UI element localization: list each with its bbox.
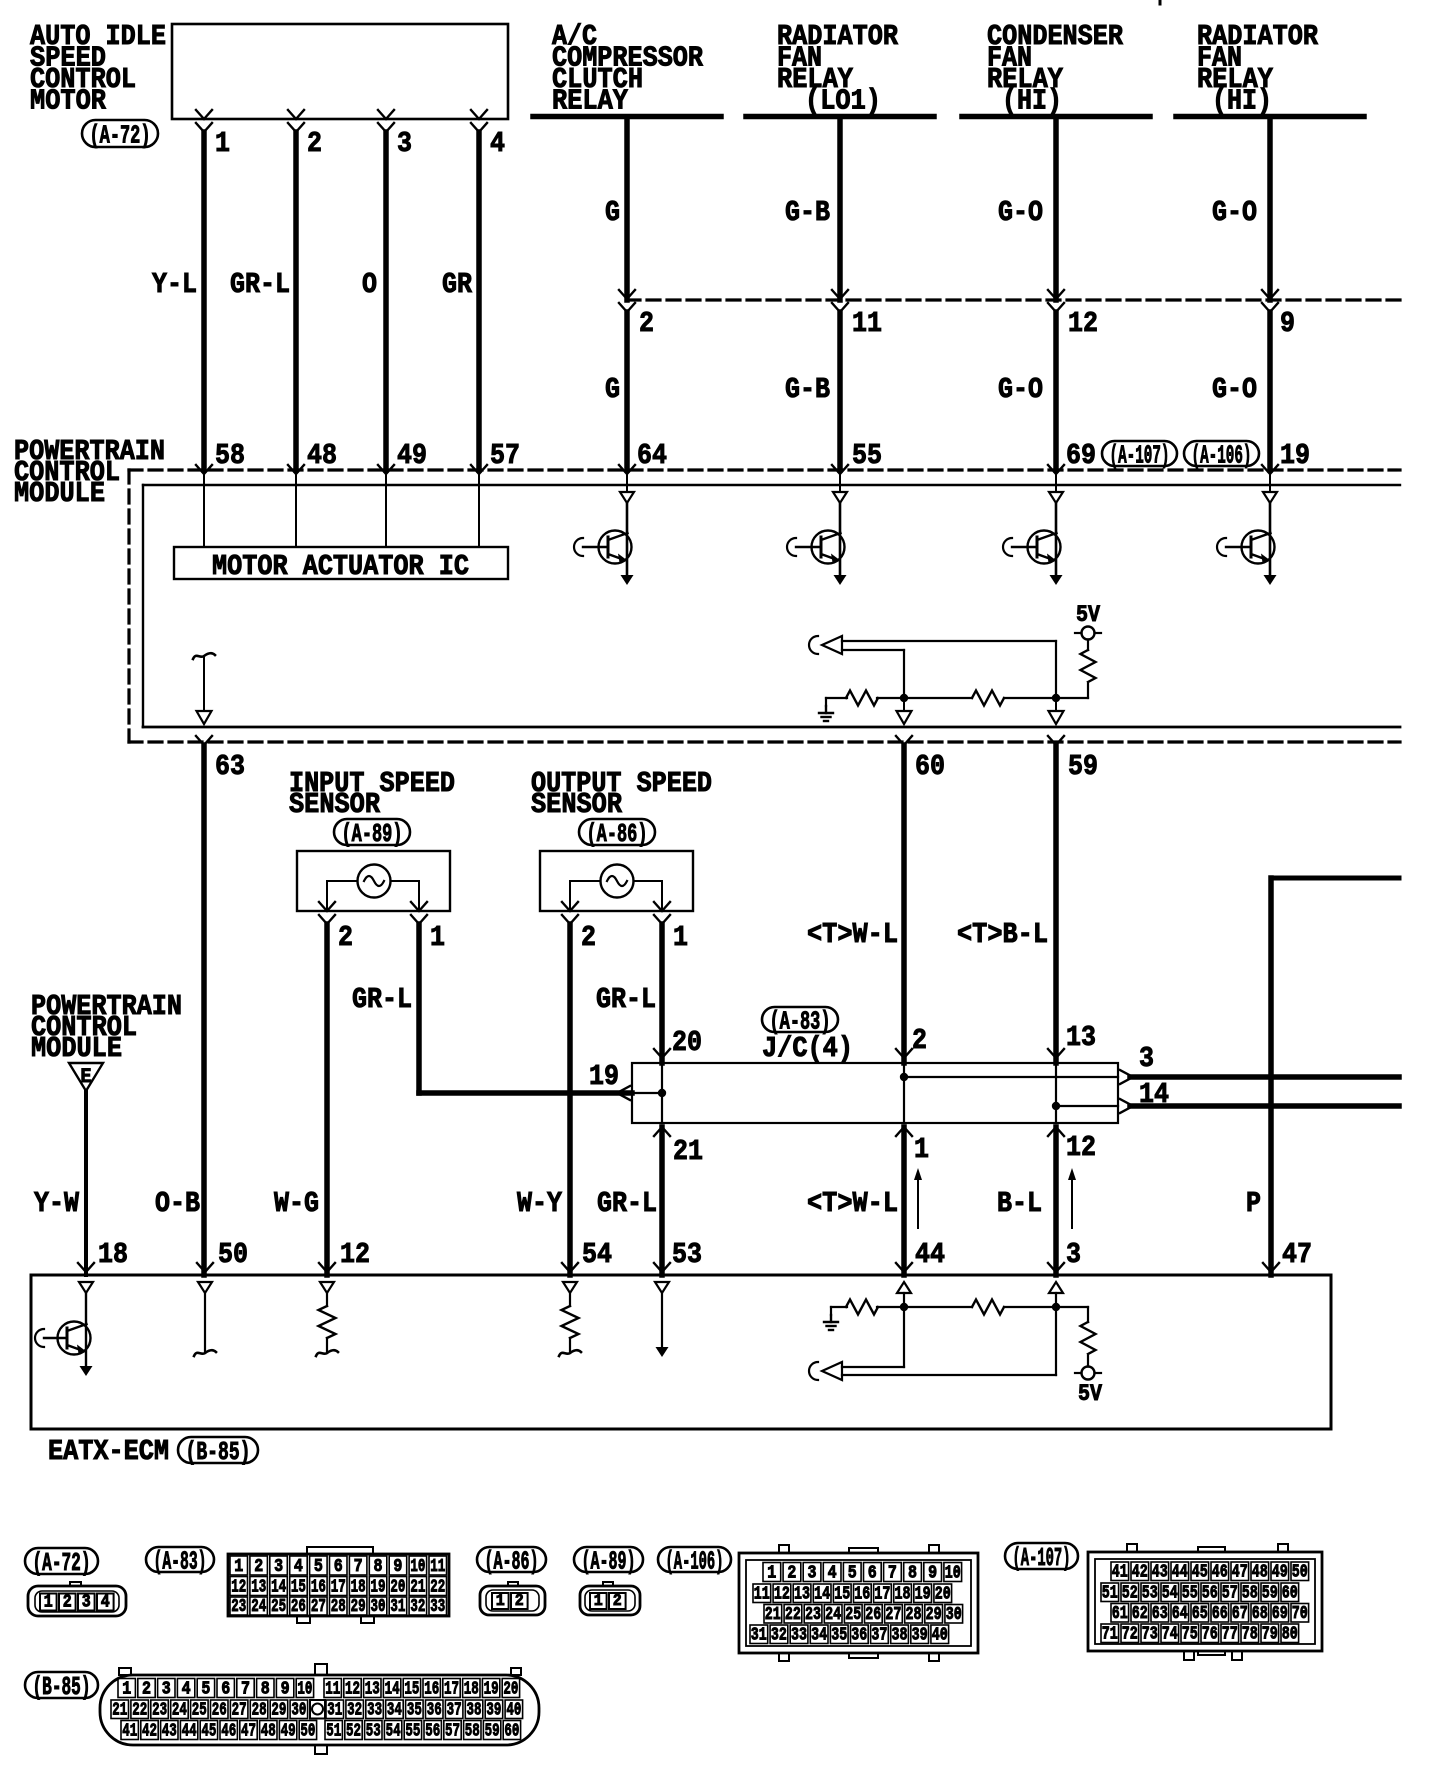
connector ref A-86 bubble	[579, 819, 655, 849]
label OUTPUT SPEED SENSOR	[531, 767, 712, 821]
EATX internal resistor R4 at pin 12	[316, 1282, 338, 1356]
svg-text:41: 41	[122, 1722, 137, 1742]
EATX internal stub pin 50 with curl	[194, 1282, 216, 1356]
connector arrow PCM pin 55	[832, 465, 848, 474]
J/C pin 3 branch wire	[904, 1070, 1133, 1084]
svg-text:(B-85): (B-85)	[186, 1437, 251, 1467]
J/C pin 21 chevron	[654, 1127, 670, 1136]
PCM pin 59 exit chevron	[1048, 736, 1064, 745]
J/C pin 12 chevron	[1048, 1127, 1064, 1136]
wire W-G A-89 pin 2 to EATX pin 12	[324, 924, 330, 1275]
svg-text:69: 69	[1066, 439, 1096, 472]
svg-text:55: 55	[852, 439, 882, 472]
svg-text:39: 39	[912, 1626, 928, 1646]
svg-text:16: 16	[854, 1585, 870, 1605]
wire internal vertical 904 EATX	[903, 1307, 905, 1367]
connector B-85 pin cells 21-30	[111, 1700, 308, 1721]
svg-text:4: 4	[182, 1680, 191, 1700]
svg-text:G-O: G-O	[998, 373, 1043, 406]
connector B-85 pin cells 11-20	[324, 1679, 520, 1700]
svg-text:64: 64	[637, 439, 667, 472]
connector pinout ref A-86 bubble (bottom)	[477, 1547, 546, 1577]
svg-text:44: 44	[182, 1722, 197, 1742]
svg-text:(A-72): (A-72)	[90, 121, 151, 151]
junction node J/C at 904,1077	[900, 1073, 908, 1081]
EATX pin 44 chevron	[896, 1263, 912, 1272]
svg-text:(A-106): (A-106)	[666, 1547, 724, 1577]
wire GR-L inside J/C vertical	[661, 1063, 663, 1123]
svg-text:48: 48	[261, 1722, 276, 1742]
EATX internal transistor Q5	[79, 1282, 93, 1367]
connector arrow PCM pin 58	[196, 465, 212, 474]
wire B-L J/C pin 12 to EATX pin 3	[1053, 1127, 1059, 1275]
wire G junction to PCM pin 64	[624, 312, 630, 470]
wire G-O relay to junction pin 9	[1267, 119, 1273, 300]
svg-text:GR-L: GR-L	[596, 983, 656, 1016]
svg-text:27: 27	[311, 1597, 326, 1617]
connector B-85 pin cells 31-40	[326, 1700, 523, 1721]
svg-text:1: 1	[914, 1133, 929, 1166]
J/C pin 19 exit arrow	[617, 1086, 662, 1100]
connector chevrons A-89 pin 2	[319, 902, 335, 924]
junction chevrons pin 2	[619, 290, 635, 312]
svg-text:G-O: G-O	[1212, 196, 1257, 229]
svg-text:W-Y: W-Y	[517, 1187, 563, 1220]
svg-text:47: 47	[1232, 1563, 1248, 1583]
wire PCM internal to motor actuator IC at x=204	[203, 474, 205, 547]
svg-text:25: 25	[845, 1605, 861, 1625]
svg-text:9: 9	[393, 1557, 402, 1577]
svg-text:33: 33	[367, 1701, 382, 1721]
svg-text:8: 8	[261, 1680, 270, 1700]
EATX internal arrow pin 3	[1049, 1282, 1063, 1307]
svg-text:50: 50	[218, 1238, 248, 1271]
svg-text:15: 15	[404, 1680, 419, 1700]
svg-text:60: 60	[915, 750, 945, 783]
wire <T>B-L PCM pin 59 to J/C pin 13	[1053, 745, 1059, 1063]
svg-text:56: 56	[425, 1722, 440, 1742]
svg-text:37: 37	[447, 1701, 462, 1721]
EATX resistor R6	[831, 1300, 904, 1315]
svg-text:E: E	[81, 1066, 92, 1089]
svg-text:1: 1	[767, 1564, 776, 1584]
transistor Q3 (PCM driver)	[1003, 474, 1063, 585]
svg-text:MOTOR: MOTOR	[30, 85, 107, 118]
svg-text:1: 1	[234, 1557, 243, 1577]
svg-text:2: 2	[142, 1680, 151, 1700]
svg-text:(A-83): (A-83)	[154, 1547, 207, 1577]
svg-text:12: 12	[1068, 307, 1098, 340]
svg-text:(A-107): (A-107)	[1013, 1543, 1071, 1573]
label AUTO IDLE SPEED CONTROL MOTOR	[30, 20, 166, 118]
connector ref A-107 bubble	[1102, 441, 1177, 471]
svg-text:68: 68	[1252, 1604, 1268, 1624]
svg-text:79: 79	[1262, 1625, 1278, 1645]
wire P from right to EATX pin 47	[1271, 878, 1399, 1275]
wire Y-W PCM ground to EATX pin 18	[84, 1091, 88, 1275]
svg-text:18: 18	[98, 1238, 128, 1271]
svg-text:73: 73	[1142, 1625, 1158, 1645]
svg-text:2: 2	[787, 1564, 796, 1584]
PCM resistor R2	[826, 691, 904, 706]
svg-text:29: 29	[926, 1605, 942, 1625]
svg-text:GR-L: GR-L	[230, 268, 290, 301]
svg-text:57: 57	[490, 439, 520, 472]
svg-text:19: 19	[915, 1585, 931, 1605]
signal direction arrow at pin 44	[914, 1168, 922, 1228]
motor actuator IC box U1	[174, 547, 508, 579]
svg-text:3: 3	[274, 1557, 283, 1577]
svg-text:15: 15	[291, 1578, 306, 1598]
svg-text:52: 52	[1122, 1584, 1138, 1604]
svg-text:72: 72	[1122, 1625, 1138, 1645]
transistor Q2 (PCM driver)	[787, 474, 847, 585]
svg-text:1: 1	[496, 1592, 505, 1611]
wire <T>W-L PCM pin 60 to J/C pin 2	[901, 745, 907, 1063]
svg-text:O-B: O-B	[155, 1187, 200, 1220]
scan tick top	[1159, 0, 1162, 4]
connector pinout A-86 body	[480, 1582, 545, 1615]
svg-text:45: 45	[1192, 1563, 1208, 1583]
svg-text:MODULE: MODULE	[31, 1032, 122, 1065]
connector chevrons motor pin 1	[196, 110, 212, 132]
wire G-O relay to junction pin 12	[1053, 119, 1059, 300]
svg-text:EATX-ECM: EATX-ECM	[48, 1435, 169, 1468]
EATX pin 3 chevron	[1048, 1263, 1064, 1272]
connector arrow PCM pin 57	[471, 465, 487, 474]
svg-text:P: P	[1246, 1187, 1261, 1220]
svg-text:(HI): (HI)	[1002, 85, 1062, 118]
wire G relay to junction pin 2	[624, 119, 630, 300]
svg-text:4: 4	[101, 1593, 110, 1613]
svg-text:1: 1	[594, 1592, 603, 1611]
junction chevrons pin 12	[1048, 290, 1064, 312]
connector arrow PCM pin 19	[1262, 465, 1278, 474]
svg-text:(A-106): (A-106)	[1192, 441, 1252, 471]
label INPUT SPEED SENSOR	[289, 767, 455, 821]
svg-text:29: 29	[271, 1701, 286, 1721]
svg-text:2: 2	[639, 307, 654, 340]
svg-text:12: 12	[231, 1578, 246, 1598]
svg-text:13: 13	[365, 1680, 380, 1700]
svg-text:21: 21	[673, 1135, 703, 1168]
svg-text:25: 25	[271, 1597, 286, 1617]
connector pinout ref A-89 bubble (bottom)	[574, 1547, 643, 1577]
svg-text:62: 62	[1132, 1604, 1148, 1624]
svg-text:58: 58	[215, 439, 245, 472]
svg-text:(A-86): (A-86)	[587, 819, 648, 849]
svg-text:63: 63	[1152, 1604, 1168, 1624]
sensor leads A-89	[327, 881, 419, 911]
svg-text:13: 13	[251, 1578, 266, 1598]
svg-text:23: 23	[231, 1597, 246, 1617]
svg-text:12: 12	[340, 1238, 370, 1271]
EATX pin 47 chevron	[1263, 1263, 1279, 1272]
svg-text:48: 48	[307, 439, 337, 472]
svg-text:42: 42	[1132, 1563, 1148, 1583]
svg-text:78: 78	[1242, 1625, 1258, 1645]
wire internal vertical at 904	[903, 650, 905, 698]
svg-text:11: 11	[430, 1557, 445, 1577]
connector A-107 pin cells 41-50	[1111, 1562, 1309, 1583]
svg-text:J/C(4): J/C(4)	[762, 1032, 853, 1065]
connector ref A-83 bubble	[762, 1007, 838, 1037]
connector A-107 pin cells 61-70	[1111, 1604, 1309, 1625]
svg-text:14: 14	[271, 1578, 286, 1598]
svg-text:33: 33	[430, 1597, 445, 1617]
connector chevrons A-86 pin 2	[562, 902, 578, 924]
EATX resistor R7	[904, 1300, 1056, 1315]
svg-text:1: 1	[122, 1680, 131, 1700]
svg-text:5V: 5V	[1076, 602, 1100, 628]
wire B-L inside J/C vertical	[1055, 1063, 1057, 1123]
connector A-83 pin cells 12-22	[230, 1577, 447, 1598]
svg-text:3: 3	[1139, 1042, 1154, 1075]
svg-text:47: 47	[1282, 1238, 1312, 1271]
svg-text:20: 20	[390, 1578, 405, 1598]
svg-text:59: 59	[1262, 1584, 1278, 1604]
svg-text:48: 48	[1252, 1563, 1268, 1583]
connector arrow PCM pin 69	[1048, 465, 1064, 474]
svg-text:MOTOR ACTUATOR IC: MOTOR ACTUATOR IC	[212, 550, 469, 583]
wire G-B relay to junction pin 11	[837, 119, 843, 300]
connector pinout ref A-107 bubble (bottom)	[1005, 1543, 1078, 1573]
svg-text:31: 31	[751, 1626, 767, 1646]
svg-text:50: 50	[300, 1722, 315, 1742]
connector A-106 pin cells 31-40	[750, 1625, 949, 1646]
junction node at 904,698	[900, 694, 908, 702]
connector pinout B-85 body	[100, 1664, 539, 1754]
svg-text:13: 13	[1066, 1021, 1096, 1054]
connector arrow PCM pin 48	[288, 465, 304, 474]
svg-text:17: 17	[874, 1585, 890, 1605]
svg-text:10: 10	[297, 1680, 312, 1700]
PCM internal wire to pin 63 with curl	[193, 653, 215, 710]
svg-text:17: 17	[331, 1578, 346, 1598]
svg-text:38: 38	[467, 1701, 482, 1721]
connector A-106 pin cells 1-10	[763, 1563, 962, 1584]
svg-text:22: 22	[132, 1701, 147, 1721]
wire G-O junction to PCM pin 19	[1267, 312, 1273, 470]
wire GR motor pin 4 to PCM pin 57	[476, 132, 482, 470]
svg-text:4: 4	[294, 1557, 303, 1577]
svg-text:18: 18	[351, 1578, 366, 1598]
wire GR-L J/C pin 21 to EATX pin 53	[659, 1127, 665, 1275]
svg-text:7: 7	[241, 1680, 250, 1700]
svg-text:32: 32	[347, 1701, 362, 1721]
svg-text:12: 12	[774, 1585, 790, 1605]
svg-text:6: 6	[334, 1557, 343, 1577]
svg-text:19: 19	[1280, 439, 1310, 472]
svg-text:2: 2	[912, 1024, 927, 1057]
svg-text:25: 25	[192, 1701, 207, 1721]
svg-text:66: 66	[1212, 1604, 1228, 1624]
dashed junction line (harness boundary)	[627, 298, 1400, 301]
svg-text:53: 53	[366, 1722, 381, 1742]
connector pinout A-72 body	[28, 1582, 126, 1616]
svg-text:40: 40	[506, 1701, 521, 1721]
EATX internal bus arrow with curl	[809, 1362, 1056, 1380]
svg-text:32: 32	[771, 1626, 787, 1646]
input speed sensor generator symbol	[358, 865, 391, 898]
svg-text:12: 12	[1066, 1131, 1096, 1164]
PCM pull-up resistor R1	[1056, 640, 1096, 699]
svg-text:23: 23	[805, 1605, 821, 1625]
svg-text:G: G	[605, 196, 620, 229]
PCM internal ground	[819, 698, 833, 721]
connector A-83 pin cells 23-33	[230, 1597, 447, 1617]
svg-text:22: 22	[430, 1578, 445, 1598]
junction node at 904,1307	[900, 1303, 908, 1311]
EATX-ECM box outline	[31, 1275, 1331, 1429]
svg-text:16: 16	[424, 1680, 439, 1700]
svg-text:Y-L: Y-L	[152, 268, 197, 301]
svg-text:76: 76	[1202, 1625, 1218, 1645]
svg-text:58: 58	[465, 1722, 480, 1742]
wire W-Y A-86 pin 2 to EATX pin 54	[567, 924, 573, 1275]
J/C pin 13 chevron	[1048, 1049, 1064, 1058]
svg-text:69: 69	[1272, 1604, 1288, 1624]
svg-text:26: 26	[865, 1605, 881, 1625]
svg-text:41: 41	[1112, 1563, 1128, 1583]
connector pinout ref A-72 bubble (bottom)	[25, 1548, 98, 1578]
wire O-B PCM pin 63 to EATX pin 50	[201, 745, 207, 1275]
svg-text:MODULE: MODULE	[14, 477, 105, 510]
svg-text:28: 28	[906, 1605, 922, 1625]
svg-text:16: 16	[311, 1578, 326, 1598]
svg-text:24: 24	[825, 1605, 841, 1625]
svg-text:3: 3	[808, 1564, 817, 1584]
wire (T)W-L J/C pin 3 to right	[1130, 1074, 1399, 1080]
EATX internal ground stub pin 53	[655, 1282, 669, 1357]
svg-text:61: 61	[1112, 1604, 1128, 1624]
svg-text:57: 57	[1222, 1584, 1238, 1604]
wire GR-L A-89 pin 1 to J/C pin 19	[419, 924, 632, 1093]
svg-text:(A-89): (A-89)	[582, 1547, 636, 1577]
svg-text:6: 6	[868, 1564, 877, 1584]
connector pinout ref A-106 bubble (bottom)	[658, 1547, 731, 1577]
svg-text:G-B: G-B	[785, 373, 830, 406]
svg-text:20: 20	[503, 1680, 518, 1700]
arrow to PCM pin 60	[897, 698, 912, 724]
svg-text:7: 7	[354, 1557, 363, 1577]
wire W-L inside J/C vertical	[903, 1063, 905, 1123]
svg-text:35: 35	[407, 1701, 422, 1721]
svg-text:3: 3	[162, 1680, 171, 1700]
EATX internal resistor R5 at pin 54	[559, 1282, 581, 1356]
svg-text:80: 80	[1282, 1625, 1298, 1645]
wire G-O junction to PCM pin 69	[1053, 312, 1059, 470]
svg-text:46: 46	[1212, 1563, 1228, 1583]
connector A-106 pin cells 11-20	[753, 1584, 952, 1605]
svg-text:36: 36	[851, 1626, 867, 1646]
svg-text:75: 75	[1182, 1625, 1198, 1645]
EATX pin 18 chevron	[78, 1263, 94, 1272]
EATX pull-up resistor R8 and 5V	[1056, 1307, 1102, 1407]
svg-text:2: 2	[581, 921, 596, 954]
svg-text:10: 10	[945, 1564, 961, 1584]
svg-text:<T>W-L: <T>W-L	[807, 1187, 898, 1220]
connector B-85 pin cells 1-10	[118, 1679, 314, 1700]
connector pinout A-106 body	[739, 1545, 978, 1661]
connector A-86 pin cells 1-2	[492, 1592, 528, 1611]
svg-text:56: 56	[1202, 1584, 1218, 1604]
label A/C COMPRESSOR CLUTCH RELAY	[552, 20, 704, 118]
svg-text:1: 1	[44, 1593, 53, 1613]
connector pinout A-107 body	[1088, 1544, 1322, 1660]
connector pinout ref A-83 bubble (bottom)	[146, 1547, 214, 1577]
svg-text:29: 29	[351, 1597, 366, 1617]
svg-text:54: 54	[386, 1722, 401, 1742]
EATX pin 53 chevron	[654, 1263, 670, 1272]
connector A-107 pin cells 71-80	[1101, 1624, 1299, 1645]
svg-text:(A-72): (A-72)	[33, 1548, 91, 1578]
connector arrow PCM pin 64	[619, 465, 635, 474]
svg-text:<T>W-L: <T>W-L	[807, 918, 898, 951]
svg-text:44: 44	[915, 1238, 945, 1271]
PCM pin 60 exit chevron	[896, 736, 912, 745]
svg-text:49: 49	[281, 1722, 296, 1742]
svg-text:23: 23	[152, 1701, 167, 1721]
svg-text:G-O: G-O	[1212, 373, 1257, 406]
EATX internal ground	[824, 1307, 838, 1330]
connector B-85 center index cell	[310, 1700, 325, 1719]
svg-text:65: 65	[1192, 1604, 1208, 1624]
svg-text:3: 3	[1066, 1238, 1081, 1271]
svg-text:28: 28	[331, 1597, 346, 1617]
svg-text:11: 11	[325, 1680, 340, 1700]
svg-text:9: 9	[928, 1564, 937, 1584]
svg-text:6: 6	[221, 1680, 230, 1700]
wire PCM internal to motor actuator IC at x=296	[295, 474, 297, 547]
svg-text:15: 15	[834, 1585, 850, 1605]
svg-text:(B-85): (B-85)	[33, 1672, 91, 1702]
svg-text:38: 38	[892, 1626, 908, 1646]
label POWERTRAIN CONTROL MODULE (lower)	[31, 990, 182, 1065]
svg-text:18: 18	[464, 1680, 479, 1700]
svg-text:30: 30	[946, 1605, 962, 1625]
svg-text:7: 7	[888, 1564, 897, 1584]
svg-text:GR: GR	[442, 268, 473, 301]
svg-text:70: 70	[1292, 1604, 1308, 1624]
svg-text:1: 1	[673, 921, 688, 954]
svg-text:11: 11	[754, 1585, 770, 1605]
svg-text:63: 63	[215, 750, 245, 783]
connector B-85 pin cells 41-50	[121, 1721, 317, 1742]
svg-text:26: 26	[291, 1597, 306, 1617]
junction node J/C at 1056,1106	[1052, 1102, 1060, 1110]
svg-text:G-O: G-O	[998, 196, 1043, 229]
svg-text:GR-L: GR-L	[352, 983, 412, 1016]
svg-text:36: 36	[427, 1701, 442, 1721]
connector pinout ref B-85 bubble (bottom)	[25, 1672, 98, 1702]
junction connector A-83 J/C(4) box	[632, 1063, 1118, 1123]
svg-text:52: 52	[346, 1722, 361, 1742]
connector chevrons motor pin 4	[471, 110, 487, 132]
svg-text:53: 53	[672, 1238, 702, 1271]
svg-text:20: 20	[935, 1585, 951, 1605]
svg-text:G-B: G-B	[785, 196, 830, 229]
EATX pin 54 chevron	[562, 1263, 578, 1272]
svg-text:12: 12	[345, 1680, 360, 1700]
svg-text:SENSOR: SENSOR	[531, 788, 623, 821]
connector chevrons motor pin 3	[378, 110, 394, 132]
svg-text:W-G: W-G	[274, 1187, 319, 1220]
connector ref A-89 bubble	[334, 819, 410, 849]
signal direction arrow at pin 3	[1068, 1168, 1076, 1228]
wire B-L J/C pin 14 to right	[1130, 1103, 1399, 1109]
svg-text:13: 13	[794, 1585, 810, 1605]
